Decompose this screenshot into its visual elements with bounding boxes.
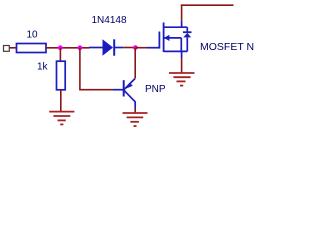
source pin (181, 51, 183, 58)
wire drain to top rail (181, 5, 183, 20)
drain stub (164, 26, 188, 28)
junction node A (58, 45, 63, 50)
body diode branch (186, 27, 188, 33)
diode D1 1N4148 (89, 39, 123, 55)
transistor Q1 PNP (113, 78, 135, 108)
wire node C to MOSFET gate (136, 47, 148, 49)
bulk stub (164, 37, 182, 39)
resistor R2 1k (57, 61, 66, 90)
PNP emitter arrow (125, 83, 133, 90)
wire input to R1 (10, 47, 18, 49)
svg-text:10: 10 (26, 30, 38, 41)
svg-text:PNP: PNP (145, 84, 166, 95)
ground GND3 (169, 73, 195, 86)
wire PNP collector to ground (134, 109, 136, 114)
MOSFET body diode triangle (183, 33, 191, 38)
terminal input port (4, 46, 10, 52)
MOSFET channel arrow (164, 35, 170, 41)
junction node B (78, 45, 83, 50)
drain pin (181, 20, 183, 27)
wire R2 to ground (60, 90, 62, 112)
transistor M1 MOSFET N (147, 20, 192, 58)
wire diode to node C (123, 47, 135, 49)
wire R1 to diode (node A rail) (46, 47, 90, 49)
channel bar (163, 23, 165, 53)
wire source to ground (181, 58, 183, 73)
ground GND2 (123, 113, 148, 126)
svg-text:MOSFET N: MOSFET N (200, 41, 254, 53)
ground GND1 (49, 112, 74, 125)
gate bar (158, 32, 160, 49)
svg-text:1N4148: 1N4148 (92, 15, 127, 26)
gate pin (147, 47, 159, 49)
wire node C down to PNP emitter (134, 48, 136, 78)
source stub (164, 50, 188, 52)
wire node B down to PNP base (80, 48, 113, 90)
resistor R1 10 (17, 44, 47, 53)
svg-text:1k: 1k (37, 62, 49, 73)
junction node C (133, 45, 138, 50)
wire node A down to R2 (59, 48, 61, 62)
bulk to source link (180, 38, 182, 52)
wire top rail (181, 4, 234, 6)
